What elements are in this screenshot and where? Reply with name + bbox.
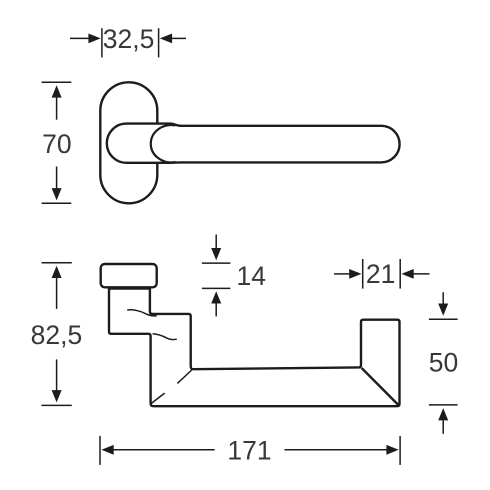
node: lower extension tick	[202, 287, 231, 289]
wire: upper leader line	[56, 277, 58, 309]
node: upper extension tick	[429, 318, 458, 320]
wire: lower leader line	[56, 167, 58, 190]
svg-text:50: 50	[429, 348, 458, 378]
wire: lower leader line	[215, 303, 217, 317]
wire: right leader line	[285, 449, 388, 451]
dimension 171 (overall length)	[100, 436, 400, 465]
neck curve break line (upper)	[127, 310, 157, 316]
svg-text:82,5: 82,5	[31, 320, 83, 350]
dimension 70 (rosette height)	[42, 82, 72, 203]
bend tangent line (upper left corner of grip)	[177, 370, 191, 383]
svg-text:32,5: 32,5	[103, 24, 155, 54]
wire: lower leader line	[56, 359, 58, 390]
dimension 21 (end block width)	[334, 259, 430, 289]
wire: left leader line	[334, 273, 350, 275]
wire: lower leader line	[442, 420, 444, 434]
wire: left leader line	[70, 37, 89, 39]
svg-text:70: 70	[42, 129, 71, 159]
svg-text:171: 171	[227, 435, 271, 465]
node: left extension tick	[101, 28, 103, 57]
bend tangent line (lower left corner of grip)	[151, 393, 164, 403]
node: lower extension tick	[429, 404, 458, 406]
wire: right leader line	[413, 273, 429, 275]
wire: left leader line	[113, 449, 215, 451]
wire: upper leader line	[56, 97, 58, 120]
lever handle silhouette (side view, cranked profile)	[109, 289, 400, 407]
node: right extension tick	[399, 436, 401, 465]
dimension 14 (rosette thickness)	[202, 235, 231, 317]
node: right extension tick	[158, 28, 160, 57]
node: right extension tick	[399, 259, 401, 289]
lever handle silhouette (front view: neck collar + bar with rounded end)	[107, 124, 400, 163]
svg-text:14: 14	[237, 261, 266, 291]
node: upper extension tick	[202, 262, 231, 264]
node: left extension tick	[362, 259, 364, 289]
wire: upper leader line	[215, 235, 217, 250]
node: top extension tick	[42, 262, 72, 264]
node: bottom extension tick	[42, 202, 72, 204]
node: left extension tick	[99, 436, 101, 465]
svg-text:21: 21	[366, 259, 395, 289]
dimension 82,5 (overall height, side view)	[42, 263, 72, 406]
dimension 50 (end height)	[429, 292, 458, 434]
dimension 32,5 (rosette width)	[70, 28, 186, 57]
inner bend edge at right end (diagonal silhouette)	[362, 368, 399, 406]
shoulder arc (bend of lever toward viewer)	[151, 125, 176, 162]
wire: right leader line	[172, 37, 187, 39]
neck curve break line (lower)	[153, 334, 177, 340]
node: top extension tick	[42, 81, 72, 83]
wire: upper leader line	[442, 292, 444, 304]
node: bottom extension tick	[42, 404, 72, 406]
rosette cap (side view)	[101, 264, 157, 287]
rosette (oval escutcheon, front view)	[100, 82, 157, 203]
